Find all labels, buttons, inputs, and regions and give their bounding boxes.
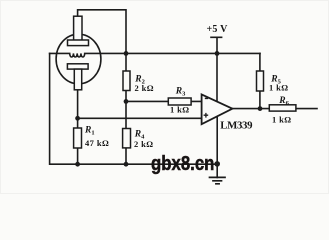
svg-text:R6: R6 xyxy=(278,96,289,107)
svg-text:1 kΩ: 1 kΩ xyxy=(170,105,190,115)
svg-text:R3: R3 xyxy=(175,87,186,98)
svg-text:1 kΩ: 1 kΩ xyxy=(269,83,289,93)
svg-text:1 kΩ: 1 kΩ xyxy=(272,114,292,124)
svg-text:47 kΩ: 47 kΩ xyxy=(85,138,109,148)
svg-text:R1: R1 xyxy=(84,126,95,137)
svg-text:LM339: LM339 xyxy=(220,120,253,132)
svg-text:2 kΩ: 2 kΩ xyxy=(135,83,155,93)
svg-text:gbx8.cn: gbx8.cn xyxy=(151,151,214,174)
svg-text:+5 V: +5 V xyxy=(207,24,229,35)
svg-text:2 kΩ: 2 kΩ xyxy=(134,139,154,149)
